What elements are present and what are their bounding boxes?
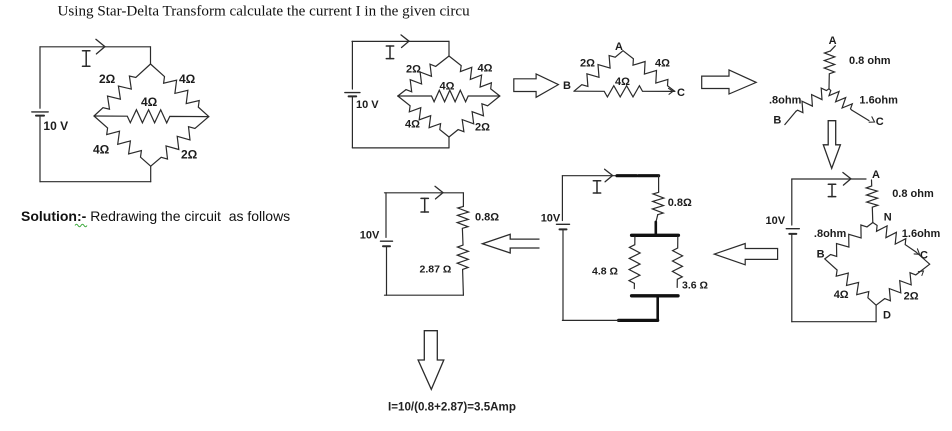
resistor 2ohm bridge1 bottom-right — [151, 117, 209, 167]
current arrow (circuit 3) — [843, 173, 851, 186]
current label I (circuit 2) — [386, 46, 393, 59]
wire right middle (circuit 5) — [461, 229, 464, 245]
svg-text:C: C — [920, 249, 928, 261]
grammar squiggle under Solution:- — [75, 224, 87, 227]
node bar top (circuit 4) — [632, 234, 679, 237]
resistor 4ohm bridge1 bottom-left — [94, 116, 151, 166]
wire into node C (circuit 3) — [916, 252, 930, 264]
node label B (circuit 3) — [817, 249, 825, 261]
node label A (star) — [829, 35, 837, 47]
value label 4&#937; (bridge1 middle) — [141, 95, 158, 109]
resistor 4ohm delta side BC — [574, 86, 675, 97]
wire left lower (circuit 1) — [39, 117, 41, 182]
resistor 0.8ohm (circuit 3, A to N) — [866, 180, 878, 223]
wire bottom stub to bridge bottom node (circuit 2) — [448, 137, 450, 148]
value label 0.8&#937; (circuit 5) — [475, 212, 499, 224]
svg-text:C: C — [677, 87, 685, 99]
value label 2&#937; (bridge2 top-left) — [406, 64, 421, 76]
node label A (delta) — [615, 41, 623, 53]
svg-text:B: B — [563, 80, 571, 92]
svg-text:10 V: 10 V — [43, 119, 68, 133]
battery V5 10V (circuit 5) — [381, 241, 393, 246]
current arrow (circuit 1) — [96, 39, 105, 54]
svg-text:1.6ohm: 1.6ohm — [902, 228, 941, 240]
resistor 4ohm (circuit 3, B to D) — [825, 259, 876, 305]
resistor 0.8ohm (circuit 5) — [457, 206, 468, 229]
svg-text:4Ω: 4Ω — [405, 119, 420, 131]
resistor 2ohm bridge2 bottom-right — [449, 96, 500, 137]
svg-text:2Ω: 2Ω — [181, 148, 198, 162]
svg-text:.8ohm: .8ohm — [769, 95, 802, 107]
value label 4&#937; (bridge2 middle) — [440, 81, 455, 93]
block arrow down (to result) — [418, 331, 444, 390]
battery V2 10V (circuit 2) — [345, 93, 360, 97]
wire left upper (circuit 2) — [351, 41, 353, 89]
svg-text:D: D — [883, 310, 891, 322]
value label 10 V (circuit 2) — [356, 99, 379, 111]
wire bottom stub node D (circuit 3) — [875, 305, 877, 322]
svg-text:I=10/(0.8+2.87)=3.5Amp: I=10/(0.8+2.87)=3.5Amp — [388, 401, 516, 414]
svg-text:0.8Ω: 0.8Ω — [668, 197, 692, 209]
current label I (circuit 5) — [421, 198, 428, 212]
current label I (circuit 1) — [83, 51, 90, 66]
solution text — [21, 208, 290, 224]
value label 4&#937; (bridge1 bottom-left) — [93, 143, 110, 157]
wire left lower (circuit 5) — [386, 247, 388, 295]
svg-text:.8ohm: .8ohm — [814, 228, 847, 240]
battery V1 10V (circuit 1) — [32, 112, 48, 116]
value label .8ohm (circuit 3) — [814, 228, 847, 240]
resistor 2ohm bridge2 top-left — [398, 56, 449, 96]
wire star branch C end — [852, 110, 869, 121]
svg-text:4Ω: 4Ω — [141, 95, 158, 109]
svg-text:Using Star-Delta Transform cal: Using Star-Delta Transform calculate the… — [58, 3, 471, 19]
node label D (circuit 3) — [883, 310, 891, 322]
current label I (circuit 3) — [828, 184, 835, 196]
wire top (circuit 3) — [792, 178, 866, 180]
wire bottom thick segment (circuit 4) — [619, 319, 658, 322]
block arrow right (to delta) — [514, 74, 559, 97]
resistor 1.6ohm (circuit 3, N to C) — [873, 223, 916, 253]
svg-text:2.87 Ω: 2.87 Ω — [420, 264, 452, 276]
svg-text:4Ω: 4Ω — [93, 143, 110, 157]
value label 2&#937; (bridge1 bottom-right) — [181, 148, 198, 162]
resistor 4.8ohm (circuit 4 parallel left) — [629, 237, 640, 289]
wire top (circuit 4) — [562, 175, 618, 177]
wire left lower (circuit 4) — [562, 230, 564, 320]
wire bottom (circuit 3) — [792, 321, 876, 323]
value label 10V (circuit 3) — [766, 215, 786, 227]
resistor 2ohm (circuit 3, C to D) — [876, 264, 930, 305]
svg-text:C: C — [876, 116, 884, 128]
value label 1.6ohm (star C) — [859, 95, 898, 107]
arrow head on C-D wire (circuit 3) — [918, 269, 925, 276]
value label 4&#937; (delta AC) — [655, 58, 670, 70]
value label 0.8&#937; (circuit 4) — [668, 197, 692, 209]
node label A (circuit 3) — [872, 169, 880, 181]
wire bottom (circuit 4) — [562, 319, 619, 321]
wire thick stub to node bar (circuit 4) — [654, 222, 657, 235]
wire bottom stub to bridge bottom node (circuit 1) — [150, 166, 152, 182]
value label 4&#937; (circuit 3) — [834, 289, 849, 301]
value label 3.6 &#937; (circuit 4) — [682, 280, 708, 292]
value label 0.8 ohm (star A) — [849, 55, 891, 67]
value label 4&#937; (delta BC) — [615, 76, 630, 88]
svg-text:1.6ohm: 1.6ohm — [859, 95, 898, 107]
svg-text:4Ω: 4Ω — [655, 58, 670, 70]
block arrow down (star to redrawn circuit) — [823, 121, 840, 169]
wire thick stub below bar (circuit 4) — [656, 296, 659, 321]
value label .8ohm (star B) — [769, 95, 802, 107]
svg-text:4Ω: 4Ω — [834, 289, 849, 301]
arrow head at node C (delta) — [669, 88, 674, 94]
resistor 2.87ohm (circuit 5) — [457, 245, 468, 270]
value label 4&#937; (bridge2 top-right) — [478, 63, 493, 75]
resistor .8ohm (circuit 3, N to B) — [825, 223, 873, 259]
resistor 4ohm bridge1 top-right — [151, 64, 209, 117]
wire top (circuit 1) — [40, 46, 151, 48]
wire below resistor (circuit 4) — [656, 215, 658, 222]
wire top stub to bridge top node (circuit 1) — [150, 47, 152, 64]
value label 10V (circuit 4) — [541, 212, 561, 224]
wire left upper (circuit 5) — [385, 193, 387, 238]
resistor 4ohm bridge1 middle — [94, 110, 209, 123]
resistor 3.6ohm (circuit 4 parallel right) — [672, 237, 682, 288]
svg-text:Solution:- Redrawing the circu: Solution:- Redrawing the circuit as foll… — [21, 208, 290, 224]
svg-text:B: B — [773, 114, 781, 126]
current label I (circuit 4) — [593, 181, 600, 193]
wire left lower (circuit 2) — [351, 97, 353, 147]
svg-text:2Ω: 2Ω — [580, 58, 595, 70]
block arrow right (to star) — [702, 70, 757, 94]
svg-text:4.8 Ω: 4.8 Ω — [592, 266, 618, 278]
wire left upper (circuit 1) — [39, 47, 41, 108]
value label 2&#937; (delta AB) — [580, 58, 595, 70]
node label B (star) — [773, 114, 781, 126]
wire top (circuit 5) — [385, 192, 464, 194]
wire bottom (circuit 1) — [40, 181, 151, 183]
arrow head at node C (star) — [869, 117, 876, 125]
wire left upper (circuit 4) — [561, 176, 563, 221]
svg-text:2Ω: 2Ω — [904, 291, 919, 303]
value label 1.6ohm (circuit 3) — [902, 228, 941, 240]
current arrow (circuit 2) — [401, 35, 409, 48]
wire bottom (circuit 2) — [352, 147, 449, 149]
node label C (circuit 3) — [920, 249, 928, 261]
wire top stub to bridge top node (circuit 2) — [448, 41, 450, 56]
node bar bottom (circuit 4) — [632, 294, 678, 297]
resistor 0.8ohm (circuit 4) — [652, 192, 663, 215]
arrow head at node C (circuit 3) — [914, 249, 922, 257]
svg-text:4Ω: 4Ω — [179, 72, 196, 86]
value label 2.87 &#937; (circuit 5) — [420, 264, 452, 276]
node label C (star) — [876, 116, 884, 128]
svg-text:A: A — [872, 169, 880, 181]
value label 2&#937; (circuit 3) — [904, 291, 919, 303]
value label 4&#937; (bridge2 bottom-left) — [405, 119, 420, 131]
current arrow (circuit 5) — [435, 186, 443, 199]
value label 2&#937; (bridge2 bottom-right) — [475, 122, 490, 134]
current arrow (circuit 4) — [605, 169, 613, 182]
svg-text:3.6 Ω: 3.6 Ω — [682, 280, 708, 292]
value label 4.8 &#937; (circuit 4) — [592, 266, 618, 278]
svg-text:N: N — [884, 212, 892, 224]
wire node A stub (star) — [830, 46, 835, 51]
svg-text:10V: 10V — [766, 215, 786, 227]
svg-text:0.8 ohm: 0.8 ohm — [892, 188, 934, 200]
svg-text:0.8Ω: 0.8Ω — [475, 212, 499, 224]
svg-text:2Ω: 2Ω — [99, 72, 116, 86]
resistor 4ohm delta side AC — [623, 51, 675, 92]
svg-text:10V: 10V — [541, 212, 561, 224]
resistor 2ohm delta side AB — [574, 51, 623, 91]
wire top (circuit 2) — [352, 40, 449, 42]
resistor 4ohm bridge2 middle — [398, 90, 500, 102]
svg-text:10 V: 10 V — [356, 99, 379, 111]
value label 0.8 ohm (circuit 3) — [892, 188, 934, 200]
wire right lower (circuit 5) — [462, 270, 465, 295]
value label 4&#937; (bridge1 top-right) — [179, 72, 196, 86]
title text — [58, 3, 471, 19]
battery V4 10V (circuit 4) — [557, 224, 570, 229]
battery V3 10V (circuit 3) — [786, 229, 799, 234]
node label B (delta) — [563, 80, 571, 92]
block arrow left (to final circuit) — [482, 234, 539, 253]
value label 2&#937; (bridge1 top-left) — [99, 72, 116, 86]
resistor 1.6ohm star branch C — [829, 89, 852, 110]
wire right upper (circuit 5) — [462, 193, 464, 206]
value label 10 V (circuit 1) — [43, 119, 68, 133]
wire right upper (circuit 4) — [658, 176, 660, 192]
svg-text:4Ω: 4Ω — [440, 81, 455, 93]
resistor 4ohm bridge2 top-right — [449, 56, 500, 96]
block arrow left (to parallel reduction) — [714, 244, 777, 265]
resistor 2ohm bridge1 top-left — [94, 64, 151, 116]
node label C (delta) — [677, 87, 685, 99]
svg-text:4Ω: 4Ω — [615, 76, 630, 88]
svg-text:2Ω: 2Ω — [475, 122, 490, 134]
result formula text — [388, 401, 516, 414]
wire left (circuit 3) — [791, 179, 793, 225]
resistor 0.8ohm star branch B — [796, 88, 829, 113]
resistor 4ohm bridge2 bottom-left — [398, 96, 449, 137]
wire bottom (circuit 5) — [385, 294, 464, 296]
wire top thick segment (circuit 4) — [617, 174, 659, 177]
value label 10V (circuit 5) — [360, 230, 380, 242]
svg-text:0.8 ohm: 0.8 ohm — [849, 55, 891, 67]
wire star branch B end — [785, 111, 796, 124]
resistor 0.8ohm star branch A — [824, 51, 835, 89]
svg-text:10V: 10V — [360, 230, 380, 242]
svg-text:4Ω: 4Ω — [478, 63, 493, 75]
node label N (circuit 3) — [884, 212, 892, 224]
wire left lower (circuit 3) — [791, 235, 793, 322]
svg-text:2Ω: 2Ω — [406, 64, 421, 76]
svg-text:B: B — [817, 249, 825, 261]
